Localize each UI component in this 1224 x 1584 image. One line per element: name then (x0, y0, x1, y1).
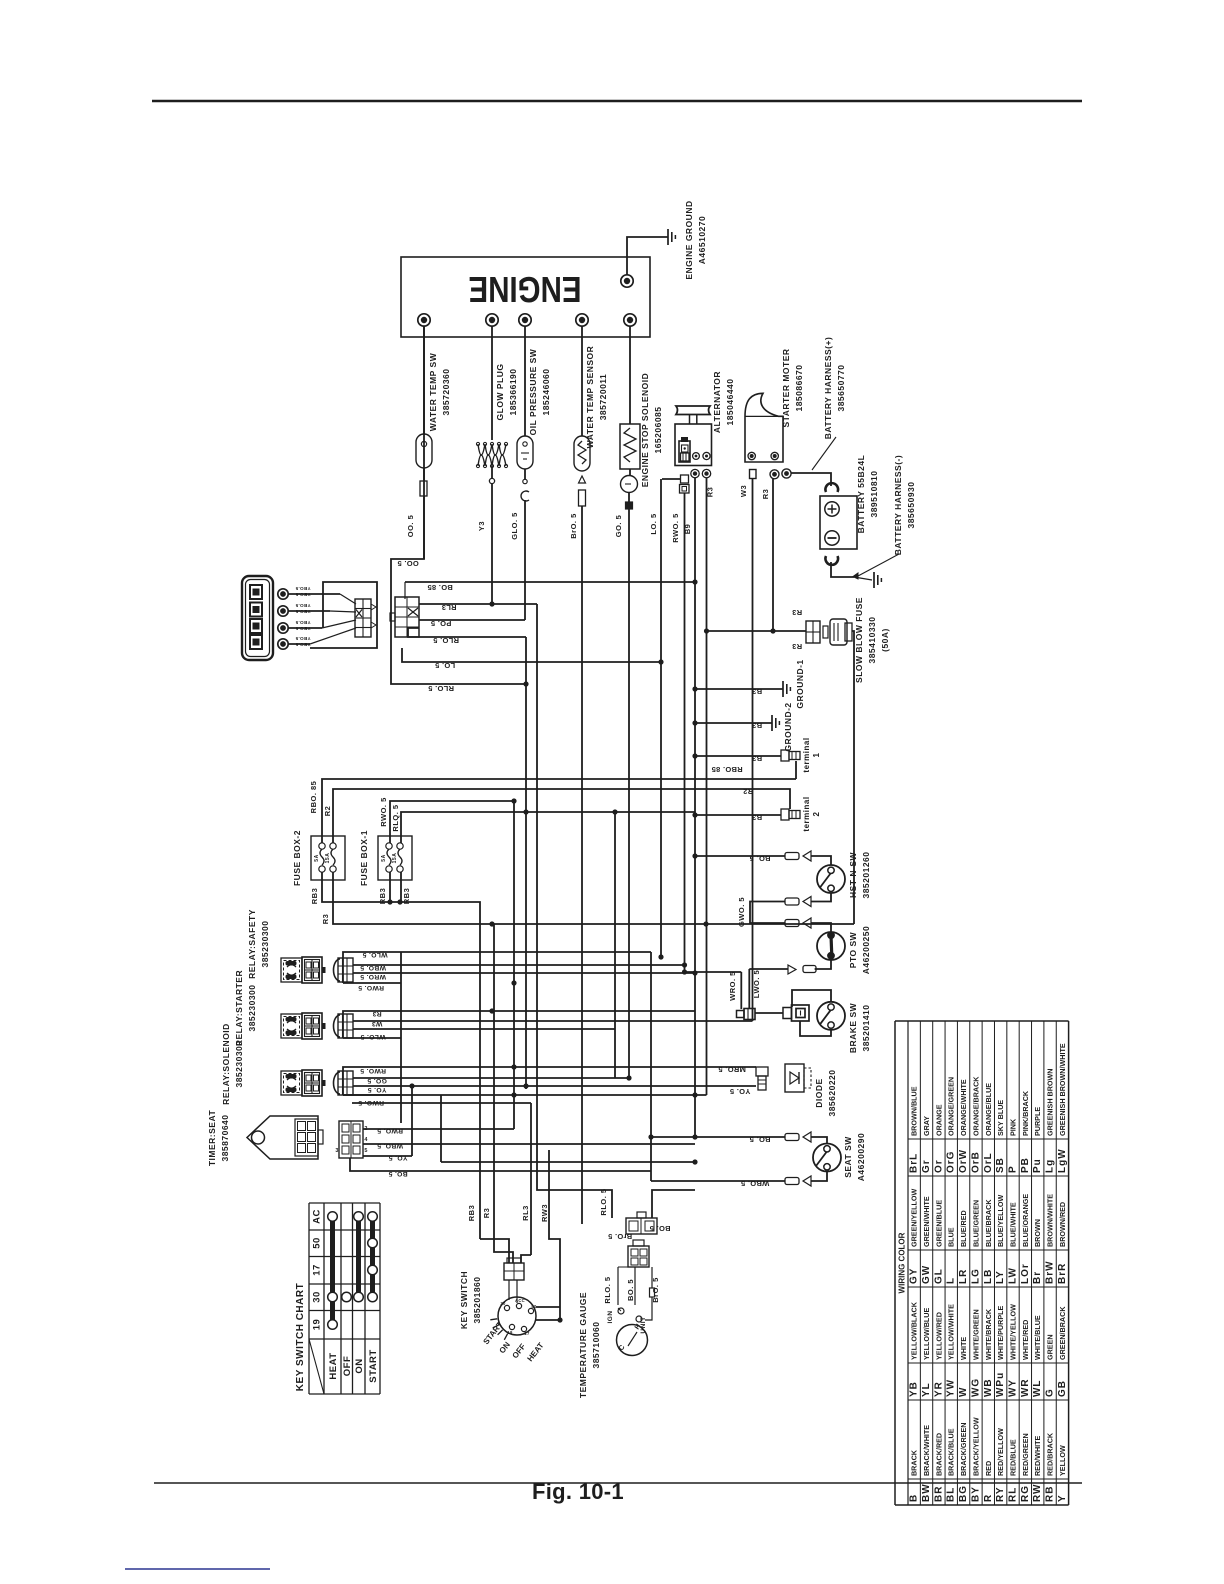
svg-text:LY: LY (995, 1270, 1006, 1284)
svg-text:RWO. 5: RWO. 5 (360, 1067, 386, 1074)
svg-text:YELLOW/RED: YELLOW/RED (934, 1312, 943, 1360)
svg-text:KEY SWITCH CHART: KEY SWITCH CHART (295, 1283, 306, 1391)
svg-text:5A: 5A (381, 854, 387, 861)
svg-text:TEMPERATURE GAUGE: TEMPERATURE GAUGE (578, 1292, 588, 1398)
svg-text:WHITE/RED: WHITE/RED (1021, 1320, 1030, 1360)
svg-text:30: 30 (500, 1301, 506, 1306)
svg-text:RED: RED (984, 1461, 993, 1476)
svg-text:OIL PRESSURE SW: OIL PRESSURE SW (528, 348, 538, 435)
svg-text:A46510270: A46510270 (697, 216, 707, 264)
svg-text:P: P (1008, 1165, 1019, 1173)
svg-text:BATTERY HARNESS(-): BATTERY HARNESS(-) (893, 455, 903, 555)
svg-text:LB: LB (983, 1269, 994, 1284)
svg-text:RLO. 5: RLO. 5 (428, 684, 454, 693)
svg-text:BRAKE SW: BRAKE SW (848, 1002, 858, 1053)
svg-text:RWO. 5: RWO. 5 (379, 797, 388, 827)
svg-text:BROWN/RED: BROWN/RED (1058, 1202, 1067, 1247)
svg-text:BROWN: BROWN (1033, 1219, 1042, 1247)
svg-text:GREEN/BLUE: GREEN/BLUE (934, 1200, 943, 1247)
svg-text:RWO. 5: RWO. 5 (671, 513, 680, 543)
svg-text:385201260: 385201260 (861, 851, 871, 898)
svg-text:WG: WG (970, 1378, 981, 1397)
svg-text:WR: WR (1020, 1378, 1031, 1397)
svg-text:185366190: 185366190 (508, 368, 518, 415)
svg-text:terminal: terminal (802, 737, 811, 772)
svg-text:BY: BY (970, 1486, 981, 1502)
svg-text:ORANGE/BRACK: ORANGE/BRACK (971, 1076, 980, 1136)
svg-text:GLO. 5: GLO. 5 (510, 512, 519, 540)
svg-text:BLUE: BLUE (947, 1227, 956, 1247)
svg-text:2: 2 (812, 811, 821, 816)
svg-text:RED/BLUE: RED/BLUE (1009, 1439, 1018, 1476)
svg-text:R3: R3 (321, 914, 330, 925)
svg-text:OrW: OrW (958, 1149, 969, 1173)
svg-text:SLOW BLOW FUSE: SLOW BLOW FUSE (854, 597, 864, 683)
svg-text:WATER TEMP SW: WATER TEMP SW (428, 352, 438, 431)
svg-text:BRACK/GREEN: BRACK/GREEN (959, 1422, 968, 1476)
svg-text:WBO. 5: WBO. 5 (741, 1179, 769, 1188)
svg-text:W3: W3 (372, 1020, 383, 1027)
svg-text:GO. 5: GO. 5 (614, 515, 623, 538)
svg-text:385230300: 385230300 (247, 984, 257, 1031)
svg-text:389510810: 389510810 (869, 470, 879, 517)
svg-text:15A: 15A (392, 853, 398, 864)
svg-text:RLQ. 5: RLQ. 5 (391, 804, 400, 831)
svg-text:RL: RL (1008, 1487, 1019, 1502)
svg-text:GREENISH BROWN: GREENISH BROWN (1046, 1069, 1055, 1137)
svg-text:KEY SWITCH: KEY SWITCH (459, 1271, 469, 1329)
svg-text:LOr: LOr (1020, 1263, 1031, 1284)
svg-text:GREENISH BROWN/WHITE: GREENISH BROWN/WHITE (1058, 1043, 1067, 1136)
svg-text:ENGINE STOP SOLENOID: ENGINE STOP SOLENOID (640, 373, 650, 488)
svg-text:YW: YW (946, 1379, 957, 1397)
svg-text:GREEN/YELLOW: GREEN/YELLOW (910, 1188, 919, 1247)
svg-text:OO. 5: OO. 5 (406, 515, 415, 538)
svg-text:START: START (368, 1349, 379, 1382)
svg-text:BG: BG (958, 1485, 969, 1502)
svg-text:YBO.5: YBO.5 (295, 620, 310, 625)
svg-text:GREEN/WHITE: GREEN/WHITE (922, 1196, 931, 1247)
svg-text:RED/YELLOW: RED/YELLOW (996, 1428, 1005, 1476)
svg-text:G: G (1045, 1388, 1056, 1397)
svg-text:5: 5 (364, 1148, 367, 1154)
svg-text:BrO. 5: BrO. 5 (608, 1232, 632, 1241)
svg-text:LR: LR (958, 1269, 969, 1284)
svg-text:RLO. 5: RLO. 5 (603, 1276, 612, 1303)
svg-text:165206085: 165206085 (653, 406, 663, 453)
svg-text:R: R (983, 1494, 994, 1502)
svg-text:RBO. 85: RBO. 85 (711, 765, 742, 774)
svg-text:SB: SB (995, 1157, 1006, 1173)
svg-text:RELAY:SOLENOID: RELAY:SOLENOID (221, 1023, 231, 1105)
svg-text:GL: GL (933, 1268, 944, 1284)
svg-text:5A: 5A (314, 854, 320, 861)
svg-text:Y: Y (1057, 1494, 1068, 1502)
svg-text:GB: GB (1057, 1380, 1068, 1397)
svg-text:YELLOW/WHITE: YELLOW/WHITE (947, 1304, 956, 1360)
svg-text:SEAT SW: SEAT SW (843, 1136, 853, 1178)
svg-text:17: 17 (312, 1264, 323, 1276)
svg-text:terminal: terminal (802, 796, 811, 831)
svg-text:WBO. 5: WBO. 5 (360, 964, 386, 971)
svg-text:OFF: OFF (342, 1356, 353, 1377)
svg-text:R3: R3 (792, 642, 802, 651)
svg-text:ORANGE/BLUE: ORANGE/BLUE (984, 1083, 993, 1136)
svg-text:R3: R3 (372, 1010, 381, 1017)
svg-text:BROWN/WHITE: BROWN/WHITE (1046, 1194, 1055, 1247)
svg-text:Y3: Y3 (477, 521, 486, 531)
svg-text:YELLOW: YELLOW (1058, 1445, 1067, 1476)
svg-text:B3: B3 (752, 721, 762, 730)
svg-text:W3: W3 (739, 485, 748, 497)
svg-text:RW3: RW3 (540, 1204, 549, 1222)
svg-text:TIMER:SEAT: TIMER:SEAT (207, 1110, 217, 1167)
svg-text:LW: LW (1008, 1267, 1019, 1284)
svg-text:OrG: OrG (946, 1151, 957, 1173)
svg-text:RL3: RL3 (521, 1205, 530, 1221)
svg-text:Or: Or (933, 1159, 944, 1173)
svg-text:WHITE/YELLOW: WHITE/YELLOW (1009, 1304, 1018, 1360)
svg-text:FUSE BOX-2: FUSE BOX-2 (292, 830, 302, 886)
svg-text:BRACK/YELLOW: BRACK/YELLOW (971, 1417, 980, 1476)
svg-text:385230300: 385230300 (260, 920, 270, 967)
svg-text:BRACK/BLUE: BRACK/BLUE (947, 1428, 956, 1476)
svg-text:WHITE/BRACK: WHITE/BRACK (984, 1308, 993, 1360)
svg-text:50: 50 (312, 1237, 323, 1249)
svg-text:RB: RB (1045, 1486, 1056, 1502)
svg-text:385230300: 385230300 (234, 1040, 244, 1087)
svg-text:AC: AC (312, 1209, 323, 1224)
svg-text:BO. 85: BO. 85 (427, 583, 453, 592)
svg-text:RBO. 85: RBO. 85 (309, 781, 318, 814)
svg-text:PURPLE: PURPLE (1033, 1107, 1042, 1136)
svg-text:RWO. 5: RWO. 5 (358, 984, 384, 991)
svg-text:GROUND-2: GROUND-2 (783, 702, 793, 751)
svg-text:385720360: 385720360 (441, 368, 451, 415)
svg-text:GRAY: GRAY (922, 1116, 931, 1136)
svg-text:RB3: RB3 (467, 1205, 476, 1222)
svg-text:BRACK/WHITE: BRACK/WHITE (922, 1425, 931, 1476)
svg-text:WLO. 5: WLO. 5 (362, 951, 387, 958)
svg-text:19: 19 (312, 1319, 323, 1331)
svg-text:Gr: Gr (921, 1159, 932, 1173)
svg-text:PINK/BRACK: PINK/BRACK (1021, 1090, 1030, 1136)
svg-text:ALTERNATOR: ALTERNATOR (712, 371, 722, 433)
svg-text:ACC: ACC (515, 1298, 525, 1303)
svg-text:YELLOW/BLUE: YELLOW/BLUE (922, 1307, 931, 1360)
svg-text:R3: R3 (792, 608, 802, 617)
svg-text:BrO. 5: BrO. 5 (569, 513, 578, 539)
svg-text:YELLOW/BLACK: YELLOW/BLACK (910, 1301, 919, 1360)
svg-text:(50A): (50A) (880, 628, 890, 652)
svg-text:RWO. 5: RWO. 5 (377, 1127, 403, 1134)
svg-text:385710060: 385710060 (591, 1321, 601, 1368)
svg-text:YL: YL (921, 1382, 932, 1397)
svg-text:BL: BL (946, 1487, 957, 1502)
svg-text:19: 19 (507, 1330, 513, 1335)
svg-text:GW: GW (921, 1265, 932, 1284)
svg-text:BW: BW (921, 1483, 932, 1502)
svg-text:W: W (958, 1387, 969, 1397)
svg-text:RED/GREEN: RED/GREEN (1021, 1433, 1030, 1476)
svg-text:WL: WL (1032, 1379, 1043, 1397)
svg-text:GWO. 5: GWO. 5 (737, 897, 746, 927)
svg-text:385201860: 385201860 (472, 1276, 482, 1323)
svg-text:GROUND-1: GROUND-1 (795, 659, 805, 708)
svg-text:1: 1 (812, 752, 821, 757)
svg-text:YBO.5: YBO.5 (295, 603, 310, 608)
svg-text:YB: YB (909, 1381, 920, 1397)
svg-text:RLO. 5: RLO. 5 (599, 1188, 608, 1215)
svg-text:385620220: 385620220 (827, 1069, 837, 1116)
svg-text:RWO. 5: RWO. 5 (358, 1099, 384, 1106)
svg-text:WBO. 5: WBO. 5 (377, 1142, 403, 1149)
svg-text:LG: LG (970, 1268, 981, 1284)
svg-text:RELAY:STARTER: RELAY:STARTER (234, 970, 244, 1046)
svg-text:Pu: Pu (1032, 1158, 1043, 1173)
svg-text:BLUE/YELLOW: BLUE/YELLOW (996, 1194, 1005, 1247)
svg-text:ENGINE GROUND: ENGINE GROUND (684, 200, 694, 279)
svg-text:PINK: PINK (1009, 1118, 1018, 1136)
svg-text:RED/WHITE: RED/WHITE (1033, 1435, 1042, 1476)
svg-text:WIRING COLOR: WIRING COLOR (898, 1232, 907, 1293)
svg-text:HST N-SW: HST N-SW (848, 852, 858, 899)
svg-text:WPu: WPu (995, 1372, 1006, 1397)
svg-text:185086670: 185086670 (794, 364, 804, 411)
svg-text:R3: R3 (761, 489, 770, 500)
svg-text:185246060: 185246060 (541, 368, 551, 415)
svg-text:IGN: IGN (607, 1310, 614, 1323)
svg-text:WHITE/GREEN: WHITE/GREEN (971, 1309, 980, 1360)
svg-text:YBO.5: YBO.5 (295, 586, 310, 591)
svg-text:17: 17 (524, 1331, 530, 1336)
svg-text:PTO SW: PTO SW (848, 931, 858, 968)
svg-text:HEAT: HEAT (328, 1352, 339, 1379)
svg-text:385410330: 385410330 (867, 616, 877, 663)
svg-text:ORANGE: ORANGE (934, 1104, 943, 1136)
svg-text:RG: RG (1020, 1485, 1031, 1502)
svg-text:B3: B3 (752, 813, 762, 822)
svg-text:WATER TEMP SENSOR: WATER TEMP SENSOR (585, 346, 595, 449)
svg-text:BLUE/BRACK: BLUE/BRACK (984, 1199, 993, 1247)
svg-text:BRACK: BRACK (910, 1449, 919, 1476)
svg-text:GY: GY (909, 1268, 920, 1284)
svg-text:BR: BR (933, 1486, 944, 1502)
svg-text:ON: ON (354, 1358, 365, 1373)
svg-text:BLUE/RED: BLUE/RED (959, 1210, 968, 1247)
svg-text:YBO.5: YBO.5 (295, 636, 310, 641)
svg-text:385650770: 385650770 (836, 364, 846, 411)
svg-text:BrL: BrL (909, 1153, 920, 1173)
svg-text:BLUE/GREEN: BLUE/GREEN (971, 1200, 980, 1247)
svg-text:RW: RW (1032, 1484, 1043, 1502)
svg-text:WB: WB (983, 1378, 994, 1397)
svg-text:L: L (946, 1277, 957, 1284)
svg-text:385201410: 385201410 (861, 1004, 871, 1051)
svg-text:WRO. 5: WRO. 5 (360, 973, 386, 980)
svg-text:385650930: 385650930 (906, 481, 916, 528)
svg-text:BROWN/BLUE: BROWN/BLUE (910, 1086, 919, 1136)
svg-text:GREEN: GREEN (1046, 1334, 1055, 1360)
svg-text:BO. 5: BO. 5 (749, 1135, 770, 1144)
svg-text:SKY BLUE: SKY BLUE (996, 1100, 1005, 1136)
svg-text:BLUE/ORANGE: BLUE/ORANGE (1021, 1194, 1030, 1247)
svg-text:Fig. 10-1: Fig. 10-1 (532, 1479, 624, 1504)
svg-text:3: 3 (335, 1148, 338, 1154)
svg-text:R3: R3 (482, 1208, 491, 1219)
svg-text:GREEN/BRACK: GREEN/BRACK (1058, 1306, 1067, 1360)
svg-text:BRACK/RED: BRACK/RED (934, 1433, 943, 1476)
svg-text:WHITE/PURPLE: WHITE/PURPLE (996, 1305, 1005, 1360)
svg-text:PB: PB (1020, 1157, 1031, 1173)
svg-text:BrR: BrR (1057, 1263, 1068, 1284)
svg-text:BrW: BrW (1045, 1260, 1056, 1284)
svg-text:UNIT: UNIT (640, 1316, 647, 1333)
svg-text:OO. 5: OO. 5 (397, 559, 419, 568)
svg-text:Lg: Lg (1045, 1159, 1056, 1173)
svg-text:OrB: OrB (970, 1151, 981, 1173)
svg-text:BrO. 5: BrO. 5 (651, 1277, 660, 1303)
svg-text:RB3: RB3 (310, 888, 319, 905)
svg-text:GO. 5: GO. 5 (367, 1077, 387, 1084)
svg-text:BO. 5: BO. 5 (649, 1224, 670, 1233)
svg-text:BO. 5: BO. 5 (388, 1170, 407, 1177)
svg-text:185046440: 185046440 (725, 378, 735, 425)
svg-text:WLO. 5: WLO. 5 (360, 1033, 385, 1040)
svg-text:RY: RY (995, 1486, 1006, 1502)
svg-text:WHITE: WHITE (959, 1337, 968, 1360)
svg-text:RED/BRACK: RED/BRACK (1046, 1432, 1055, 1476)
svg-text:R2: R2 (323, 806, 332, 817)
svg-text:B3: B3 (752, 687, 762, 696)
svg-text:YO. 5: YO. 5 (389, 1154, 408, 1161)
svg-text:LgW: LgW (1057, 1148, 1068, 1173)
svg-text:OrL: OrL (983, 1152, 994, 1173)
svg-text:WRO. 5: WRO. 5 (728, 971, 737, 1001)
svg-text:BO. 5: BO. 5 (626, 1279, 635, 1301)
svg-text:385870640: 385870640 (220, 1114, 230, 1161)
svg-text:YO. 5: YO. 5 (730, 1087, 751, 1096)
svg-text:GLOW PLUG: GLOW PLUG (495, 364, 505, 421)
svg-text:A46200290: A46200290 (856, 1133, 866, 1181)
svg-text:Br: Br (1032, 1271, 1043, 1284)
svg-text:YO. 5: YO. 5 (368, 1086, 387, 1093)
svg-text:ENGINE: ENGINE (469, 269, 582, 310)
svg-text:YR: YR (933, 1381, 944, 1397)
svg-text:BLUE/WHITE: BLUE/WHITE (1009, 1202, 1018, 1247)
svg-text:DIODE: DIODE (814, 1078, 824, 1107)
svg-text:15A: 15A (325, 853, 331, 864)
svg-text:B: B (909, 1494, 920, 1502)
svg-text:ORANGE/GREEN: ORANGE/GREEN (947, 1077, 956, 1136)
svg-text:30: 30 (312, 1291, 323, 1303)
svg-text:WY: WY (1008, 1379, 1019, 1397)
svg-text:ORANGE/WHITE: ORANGE/WHITE (959, 1079, 968, 1136)
svg-text:LO. 5: LO. 5 (649, 513, 658, 534)
svg-text:FUSE BOX-1: FUSE BOX-1 (359, 830, 369, 886)
svg-text:RELAY:SAFETY: RELAY:SAFETY (247, 909, 257, 979)
svg-text:385720011: 385720011 (598, 374, 608, 421)
svg-text:BATTERY HARNESS(+): BATTERY HARNESS(+) (823, 337, 833, 440)
svg-text:A46200250: A46200250 (861, 926, 871, 974)
svg-text:WHITE/BLUE: WHITE/BLUE (1033, 1315, 1042, 1360)
svg-text:B3: B3 (752, 754, 762, 763)
